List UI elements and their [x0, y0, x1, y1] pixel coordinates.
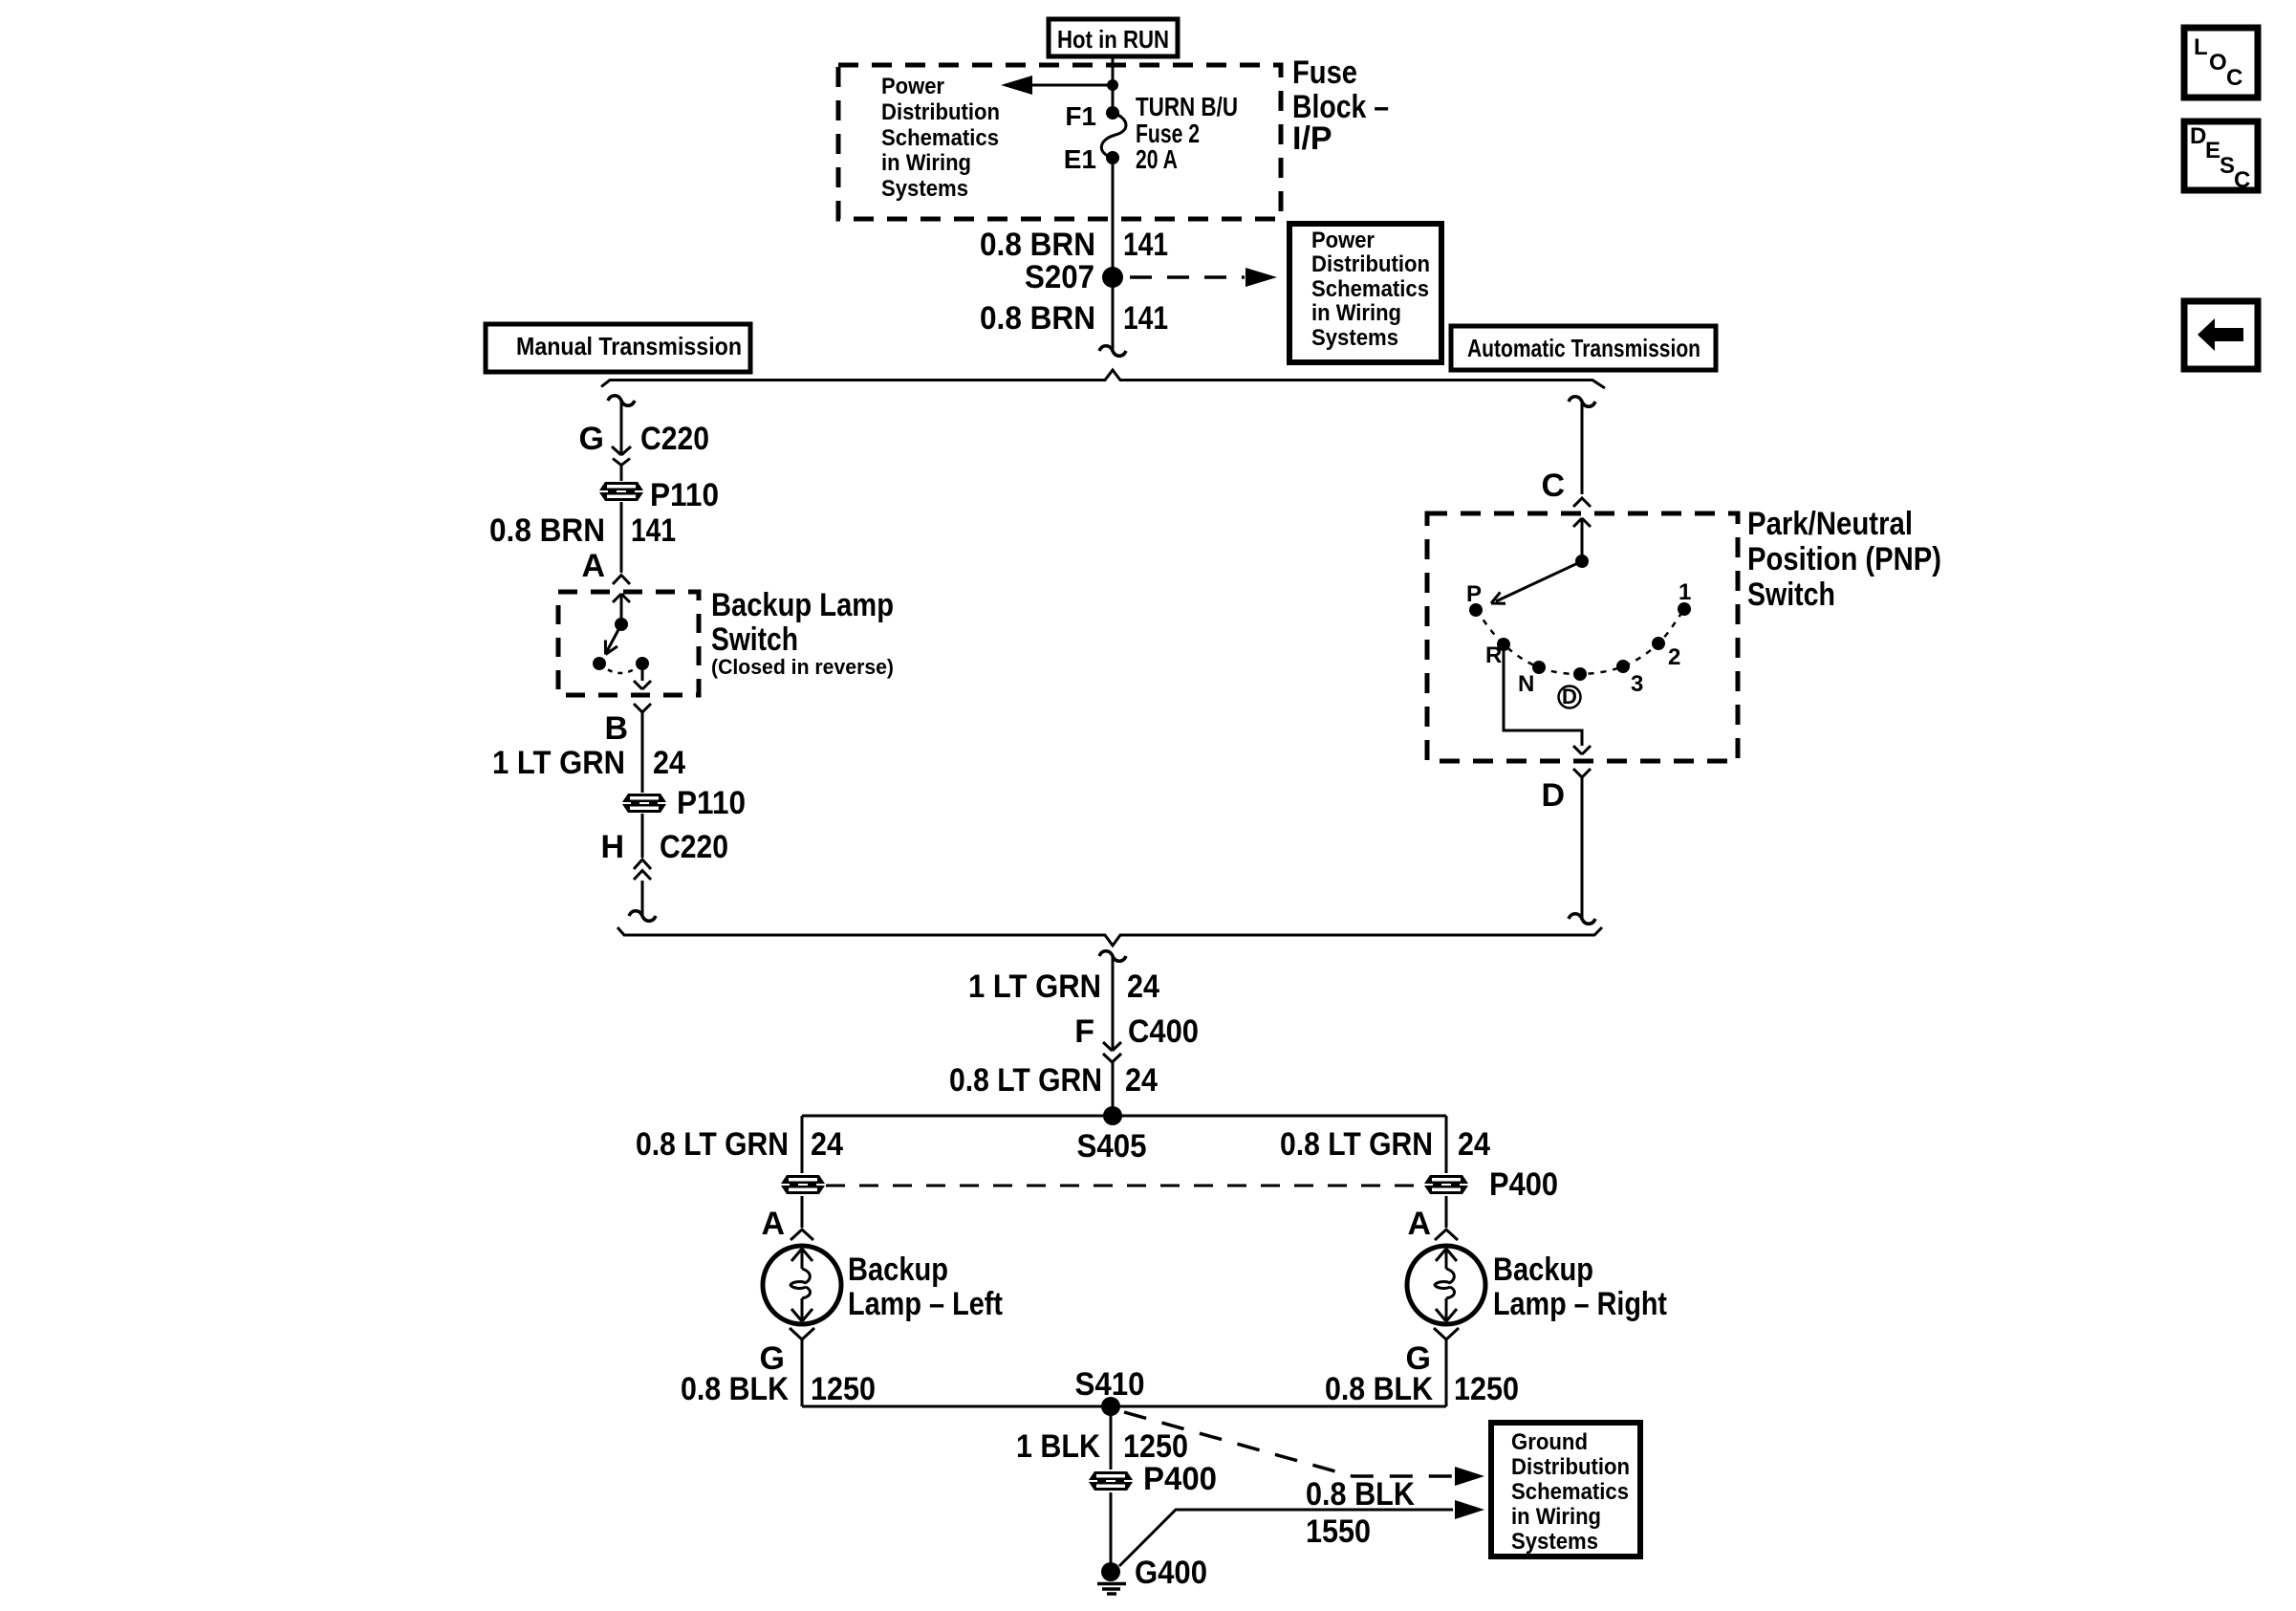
svg-text:1250: 1250: [1454, 1371, 1519, 1407]
svg-text:S405: S405: [1077, 1128, 1147, 1165]
svg-text:F: F: [1074, 1013, 1094, 1050]
svg-text:1: 1: [1679, 579, 1691, 605]
svg-text:Switch: Switch: [1747, 577, 1835, 613]
svg-text:24: 24: [1458, 1126, 1490, 1163]
svg-text:L: L: [2194, 34, 2208, 60]
svg-text:0.8 BLK: 0.8 BLK: [1306, 1476, 1415, 1513]
svg-text:P110: P110: [677, 785, 746, 821]
svg-text:1550: 1550: [1306, 1513, 1371, 1550]
svg-text:F1: F1: [1065, 101, 1096, 131]
svg-text:Systems: Systems: [1511, 1529, 1598, 1555]
svg-text:O: O: [2209, 50, 2227, 76]
svg-text:TURN B/U: TURN B/U: [1136, 92, 1238, 121]
svg-text:D: D: [1562, 685, 1577, 708]
svg-text:E1: E1: [1064, 144, 1096, 174]
svg-text:P: P: [1466, 581, 1482, 607]
svg-text:141: 141: [631, 512, 676, 549]
svg-text:24: 24: [811, 1126, 843, 1163]
svg-text:0.8 BRN: 0.8 BRN: [980, 227, 1095, 263]
svg-text:1250: 1250: [1123, 1428, 1188, 1465]
svg-text:1 BLK: 1 BLK: [1016, 1428, 1100, 1465]
svg-text:0.8 BRN: 0.8 BRN: [980, 300, 1095, 337]
svg-text:141: 141: [1123, 227, 1168, 263]
svg-text:E: E: [2205, 138, 2220, 163]
svg-text:D: D: [2190, 123, 2206, 149]
svg-text:C400: C400: [1128, 1013, 1199, 1050]
svg-text:Backup: Backup: [848, 1252, 948, 1288]
svg-text:24: 24: [1125, 1062, 1158, 1099]
svg-text:0.8 BLK: 0.8 BLK: [1325, 1371, 1433, 1407]
svg-text:P400: P400: [1489, 1166, 1558, 1203]
svg-text:A: A: [581, 548, 605, 584]
svg-text:0.8 BRN: 0.8 BRN: [489, 512, 605, 549]
svg-text:Systems: Systems: [1311, 325, 1398, 351]
svg-text:Lamp – Left: Lamp – Left: [848, 1286, 1003, 1322]
svg-text:Park/Neutral: Park/Neutral: [1747, 506, 1913, 542]
svg-text:Backup: Backup: [1493, 1252, 1593, 1288]
svg-text:24: 24: [1127, 969, 1159, 1005]
svg-text:1250: 1250: [811, 1371, 876, 1407]
svg-text:(Closed in reverse): (Closed in reverse): [711, 655, 894, 679]
svg-text:Ground: Ground: [1511, 1429, 1588, 1455]
svg-text:P400: P400: [1143, 1461, 1217, 1497]
svg-text:Manual Transmission: Manual Transmission: [516, 332, 742, 360]
svg-text:S: S: [2220, 153, 2235, 179]
svg-text:N: N: [1518, 671, 1534, 697]
svg-text:141: 141: [1123, 300, 1168, 337]
svg-text:C220: C220: [660, 829, 728, 865]
svg-text:Automatic Transmission: Automatic Transmission: [1467, 334, 1700, 362]
svg-text:Fuse: Fuse: [1292, 54, 1357, 91]
svg-text:B: B: [604, 710, 628, 747]
svg-text:C: C: [1541, 468, 1565, 504]
svg-text:1 LT GRN: 1 LT GRN: [968, 969, 1101, 1005]
svg-text:0.8 LT GRN: 0.8 LT GRN: [1280, 1126, 1433, 1163]
svg-text:C: C: [2234, 167, 2250, 193]
svg-text:Lamp – Right: Lamp – Right: [1493, 1286, 1667, 1322]
svg-text:in Wiring: in Wiring: [1311, 300, 1401, 326]
svg-text:C220: C220: [640, 421, 709, 457]
svg-text:2: 2: [1668, 644, 1680, 670]
svg-text:in Wiring: in Wiring: [1511, 1504, 1601, 1530]
svg-text:Systems: Systems: [881, 176, 968, 202]
svg-text:A: A: [761, 1206, 785, 1242]
svg-text:Power: Power: [881, 74, 944, 99]
svg-text:Schematics: Schematics: [881, 125, 999, 151]
svg-text:Schematics: Schematics: [1311, 276, 1429, 302]
svg-text:Schematics: Schematics: [1511, 1479, 1629, 1505]
svg-text:D: D: [1541, 777, 1565, 814]
svg-text:24: 24: [653, 745, 685, 781]
svg-text:Hot in RUN: Hot in RUN: [1057, 25, 1169, 54]
svg-text:0.8 BLK: 0.8 BLK: [681, 1371, 789, 1407]
svg-text:Power: Power: [1311, 228, 1375, 253]
svg-text:G: G: [579, 421, 604, 457]
svg-text:G400: G400: [1135, 1555, 1207, 1591]
svg-text:Distribution: Distribution: [1311, 251, 1430, 277]
svg-text:Switch: Switch: [711, 621, 798, 658]
svg-text:R: R: [1485, 642, 1502, 668]
svg-text:A: A: [1407, 1206, 1431, 1242]
svg-text:in Wiring: in Wiring: [881, 150, 971, 176]
svg-text:Distribution: Distribution: [1511, 1454, 1630, 1480]
svg-text:S410: S410: [1075, 1366, 1145, 1403]
svg-text:C: C: [2226, 65, 2242, 91]
svg-text:P110: P110: [650, 477, 719, 513]
svg-text:Position (PNP): Position (PNP): [1747, 541, 1941, 577]
svg-text:1 LT GRN: 1 LT GRN: [492, 745, 625, 781]
svg-text:Distribution: Distribution: [881, 99, 1000, 125]
svg-text:S207: S207: [1025, 259, 1094, 295]
svg-text:H: H: [600, 829, 624, 865]
svg-text:20 A: 20 A: [1136, 144, 1178, 174]
svg-text:3: 3: [1631, 671, 1643, 697]
svg-text:0.8 LT GRN: 0.8 LT GRN: [949, 1062, 1102, 1099]
svg-text:I/P: I/P: [1292, 120, 1332, 157]
svg-text:0.8 LT GRN: 0.8 LT GRN: [636, 1126, 789, 1163]
svg-text:Backup Lamp: Backup Lamp: [711, 587, 894, 623]
